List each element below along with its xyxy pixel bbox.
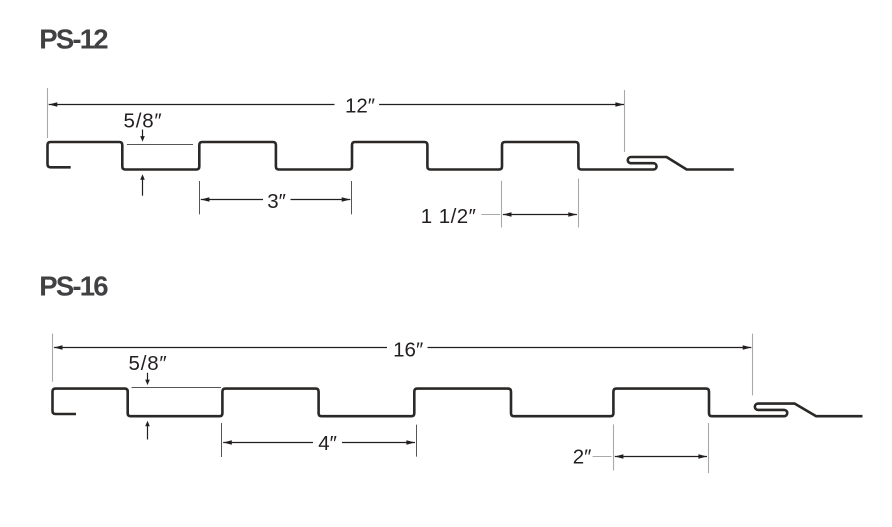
svg-text:5/8″: 5/8″ — [129, 352, 168, 375]
svg-text:5/8″: 5/8″ — [124, 109, 163, 132]
svg-text:2″: 2″ — [573, 445, 592, 468]
svg-text:1 1/2″: 1 1/2″ — [421, 205, 477, 228]
svg-text:12″: 12″ — [345, 94, 375, 117]
svg-text:16″: 16″ — [393, 338, 423, 361]
svg-text:PS-12: PS-12 — [39, 23, 108, 54]
svg-text:4″: 4″ — [318, 432, 337, 455]
svg-text:3″: 3″ — [267, 190, 286, 213]
svg-text:PS-16: PS-16 — [39, 270, 108, 301]
